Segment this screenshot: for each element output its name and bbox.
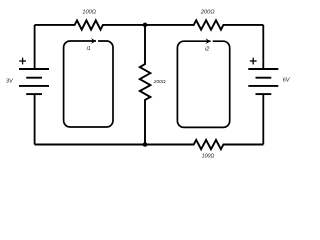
svg-text:i1: i1 (87, 46, 91, 52)
svg-text:100Ω: 100Ω (202, 154, 215, 160)
svg-text:200Ω: 200Ω (200, 10, 215, 16)
svg-text:200Ω: 200Ω (153, 79, 166, 85)
svg-text:100Ω: 100Ω (82, 10, 96, 16)
svg-text:i2: i2 (205, 46, 209, 52)
svg-text:6V: 6V (283, 77, 291, 83)
svg-text:3V: 3V (6, 79, 14, 85)
